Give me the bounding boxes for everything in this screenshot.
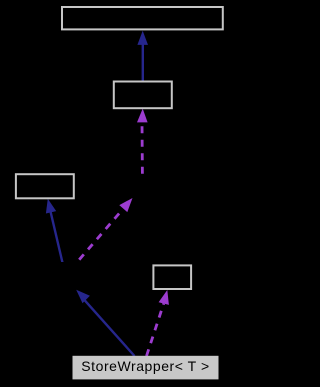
- wire: dashed usage edge hidden node E to hidden node F: [70, 209, 123, 270]
- node E (hidden black node): [36, 262, 110, 290]
- arrowhead into node D: [159, 290, 169, 305]
- svg-text:StoreWrapper< T >: StoreWrapper< T >: [81, 358, 209, 374]
- wire: solid inheritance edge hidden node E to node C: [49, 205, 65, 273]
- node B (box, unreadable label): [114, 82, 172, 109]
- arrowhead into node B: [137, 109, 148, 123]
- wire: solid inheritance edge StoreWrapper to hidden node E: [81, 296, 135, 356]
- wire: solid inheritance edge node B to node A: [142, 34, 144, 81]
- node D (right box, unreadable label): [153, 265, 191, 289]
- arrowhead into hidden node F: [119, 198, 132, 212]
- wire: dashed usage edge hidden node F to node B: [141, 122, 144, 173]
- wire: dashed usage edge StoreWrapper to node D: [147, 304, 164, 357]
- node C (left box, unreadable label): [16, 174, 74, 198]
- node A (top box, unreadable label): [62, 7, 223, 29]
- arrowhead into hidden node E: [76, 290, 90, 304]
- arrowhead into node C: [46, 199, 56, 214]
- arrowhead into node A: [137, 31, 148, 45]
- node StoreWrapper< T > (current class, filled gray): [73, 356, 219, 380]
- node F (hidden black node): [112, 174, 173, 198]
